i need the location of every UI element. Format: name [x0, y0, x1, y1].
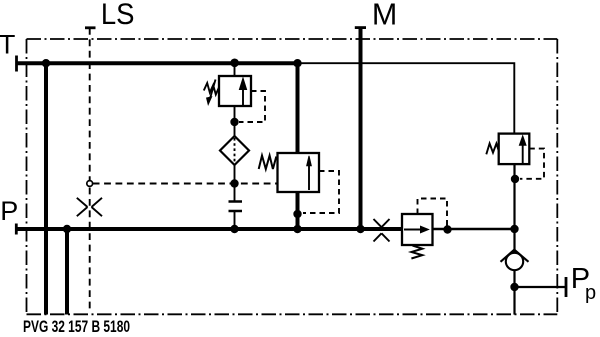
svg-text:T: T: [0, 30, 15, 60]
svg-text:PVG 32 157 B 5180: PVG 32 157 B 5180: [23, 317, 130, 336]
svg-text:M: M: [372, 0, 397, 31]
svg-text:P: P: [0, 196, 18, 226]
svg-text:p: p: [585, 282, 596, 304]
svg-text:LS: LS: [101, 0, 135, 31]
